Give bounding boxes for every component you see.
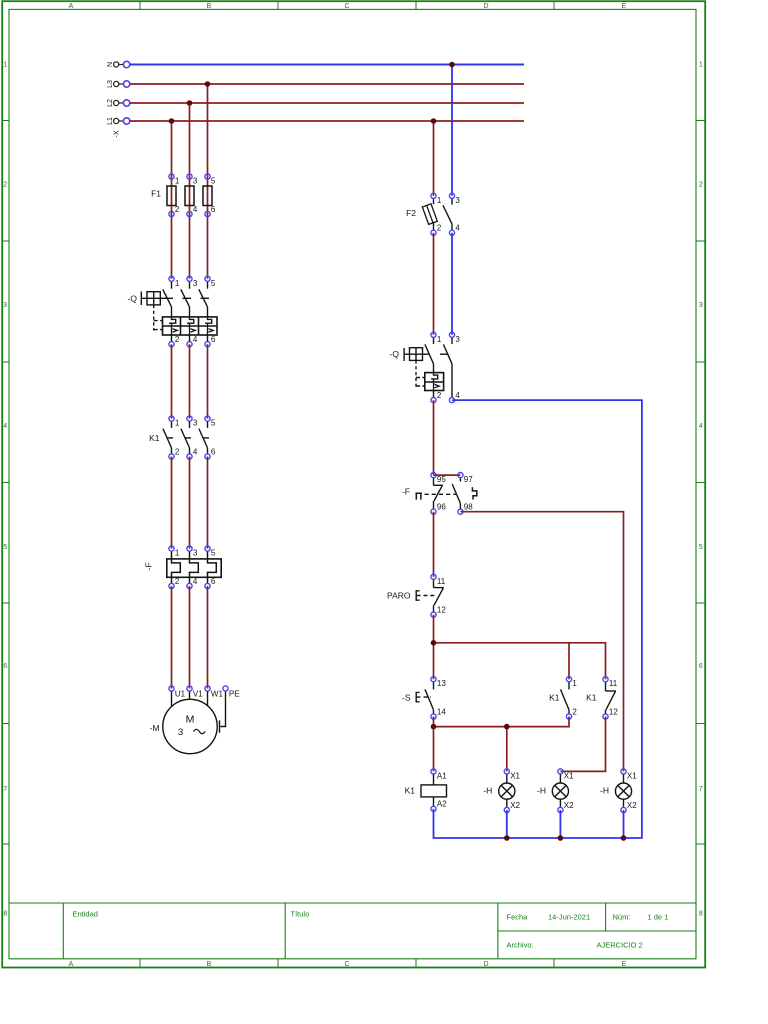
- svg-text:A: A: [69, 961, 74, 968]
- svg-text:4: 4: [3, 423, 7, 430]
- lamp H2 label: [537, 786, 546, 796]
- fuse F1 pole2: [185, 174, 198, 217]
- svg-text:98: 98: [464, 503, 473, 512]
- fuse F1 pole1: [167, 174, 180, 217]
- wire L3 drop to F1 pole3: [207, 84, 209, 279]
- motor PE lead: [220, 691, 226, 733]
- svg-text:X2: X2: [564, 801, 574, 810]
- svg-text:Título: Título: [291, 910, 310, 919]
- lamp H1: [499, 774, 515, 807]
- svg-text:1: 1: [572, 679, 577, 688]
- svg-text:6: 6: [3, 663, 7, 670]
- breaker -Q right trip box: [425, 373, 444, 391]
- wire bus L1: [130, 120, 524, 122]
- svg-text:F1: F1: [151, 189, 161, 199]
- thermal aux -F label: [402, 487, 410, 497]
- svg-text:AJERCICIO 2: AJERCICIO 2: [597, 941, 643, 950]
- svg-text:1: 1: [437, 335, 442, 344]
- wire F2 to Q2 pole2: [451, 233, 453, 335]
- svg-text:3: 3: [455, 335, 460, 344]
- svg-text:1: 1: [437, 196, 442, 205]
- svg-text:8: 8: [699, 911, 703, 918]
- wire K1 to F thermal: [172, 457, 208, 549]
- junction L1: [169, 118, 175, 124]
- svg-text:11: 11: [437, 577, 446, 586]
- svg-text:Fecha: Fecha: [507, 913, 529, 922]
- svg-text:3: 3: [193, 279, 198, 288]
- title block texts: [73, 910, 669, 950]
- breaker -Q right pole2 contact: [443, 337, 452, 397]
- PARO NC contact: [434, 579, 444, 612]
- svg-text:X2: X2: [627, 801, 637, 810]
- thermal overload -F label: [144, 562, 154, 570]
- svg-text:L1: L1: [107, 117, 114, 125]
- svg-text:2: 2: [175, 577, 180, 586]
- lamp H3: [615, 774, 631, 807]
- lamp H1 terminals: [504, 769, 520, 813]
- svg-text:M: M: [186, 714, 195, 726]
- wire N drop to F2 pole2: [451, 65, 453, 196]
- wire Q2 pin2 down to F95: [433, 400, 435, 475]
- junction L3: [205, 81, 211, 87]
- breaker -Q mechanical link dashes: [154, 298, 209, 330]
- junction node below S: [431, 724, 437, 730]
- breaker -Q right terminals: [431, 332, 461, 403]
- wire lamp X2 drops to return bus: [507, 810, 624, 838]
- coil K1: [421, 774, 447, 806]
- svg-text:95: 95: [437, 475, 446, 484]
- fuse switch F2 label: [406, 208, 416, 218]
- breaker -Q pole3 contact: [199, 281, 208, 317]
- wire 95 to 97: [434, 474, 461, 476]
- svg-text:U1: U1: [175, 690, 186, 699]
- K1 aux NC contact: [606, 682, 617, 714]
- wire bus L2: [130, 102, 524, 104]
- svg-text:5: 5: [3, 544, 7, 551]
- node L1 terminal label: [107, 117, 114, 125]
- svg-text:1: 1: [175, 419, 180, 428]
- wire 98 to lamp3: [460, 512, 623, 772]
- fuse switch F2 pole2 blade: [443, 198, 452, 230]
- K1 aux NO contact: [561, 682, 570, 714]
- svg-text:Archivo:: Archivo:: [507, 941, 534, 950]
- wire K1 NC 12 to lamp2: [560, 717, 605, 772]
- breaker -Q pole2 contact: [181, 281, 190, 317]
- lamp H2 terminals: [558, 769, 574, 813]
- svg-text:97: 97: [464, 475, 473, 484]
- svg-text:-H: -H: [483, 786, 492, 796]
- svg-text:3: 3: [193, 419, 198, 428]
- wire PARO to branch node: [433, 615, 435, 680]
- terminal circles black: [114, 62, 119, 124]
- svg-text:6: 6: [211, 447, 216, 456]
- svg-text:2: 2: [699, 182, 703, 189]
- svg-text:6: 6: [211, 205, 216, 214]
- svg-text:Núm:: Núm:: [613, 913, 631, 922]
- start button -S actuator: [416, 692, 431, 701]
- junction L2: [187, 100, 193, 106]
- terminal connector stubs: [119, 65, 124, 122]
- motor -M label: [150, 723, 160, 733]
- junction lamp1 return: [504, 835, 510, 841]
- wire L1 drop to F1 pole1: [171, 121, 173, 279]
- svg-text:1: 1: [175, 279, 180, 288]
- junction N tap: [449, 62, 455, 68]
- coil K1 label: [405, 786, 416, 796]
- svg-text:-H: -H: [537, 786, 546, 796]
- motor terminal leads: [172, 691, 208, 707]
- svg-text:W1: W1: [211, 690, 224, 699]
- svg-text:A: A: [69, 3, 74, 10]
- svg-text:8: 8: [3, 911, 7, 918]
- svg-text:Entidad: Entidad: [73, 910, 98, 919]
- wire F1 to K1 poles: [172, 344, 208, 418]
- wire 96 to PARO: [433, 512, 435, 577]
- svg-text:5: 5: [699, 544, 703, 551]
- thermal aux terminals: [431, 473, 473, 515]
- svg-text:7: 7: [699, 786, 703, 793]
- breaker -Q right link dashes: [416, 354, 448, 388]
- svg-text:1: 1: [3, 62, 7, 69]
- wire bus N: [130, 64, 524, 66]
- node N terminal label: [107, 62, 114, 67]
- svg-text:L3: L3: [107, 80, 114, 88]
- svg-text:6: 6: [211, 335, 216, 344]
- svg-text:K1: K1: [586, 693, 597, 703]
- svg-text:E: E: [622, 961, 627, 968]
- svg-text:C: C: [344, 3, 349, 10]
- svg-text:B: B: [207, 3, 212, 10]
- thermal aux latch symbol: [472, 487, 476, 499]
- wire Q2 pin4 to lamp return (blue L): [434, 400, 642, 838]
- breaker -Q right lead to pin2: [433, 391, 435, 398]
- motor terminals U1 V1 W1 PE: [169, 686, 240, 699]
- svg-text:4: 4: [455, 224, 460, 233]
- lamp H3 label: [600, 786, 609, 796]
- breaker -Q magnetic elements: [172, 326, 214, 335]
- svg-text:4: 4: [193, 447, 198, 456]
- svg-text:-F: -F: [402, 487, 410, 497]
- start button -S NO contact: [425, 682, 434, 714]
- PARO terminals: [431, 574, 446, 617]
- terminal strip -X label: [114, 130, 121, 137]
- svg-text:F2: F2: [406, 208, 416, 218]
- svg-text:PARO: PARO: [387, 591, 411, 601]
- svg-text:1 de 1: 1 de 1: [648, 913, 669, 922]
- svg-text:14: 14: [437, 707, 446, 716]
- svg-text:1: 1: [175, 549, 180, 558]
- breaker -Q handle: [141, 292, 167, 306]
- wire branch to K1 aux contacts: [434, 643, 606, 679]
- svg-text:2: 2: [175, 447, 180, 456]
- svg-text:X2: X2: [510, 801, 520, 810]
- motor inner text M 3 ~: [178, 714, 205, 739]
- start button -S label: [402, 693, 411, 703]
- junction lamp3 return: [621, 835, 627, 841]
- wire L1 drop to F2 pole1: [433, 121, 435, 196]
- contactor K1 pole2: [181, 421, 191, 454]
- thermal aux trip symbol: [415, 493, 456, 499]
- svg-text:4: 4: [699, 423, 703, 430]
- svg-text:A2: A2: [437, 800, 447, 809]
- svg-text:-M: -M: [150, 723, 160, 733]
- thermal aux NO contact 97-98: [452, 478, 460, 509]
- svg-text:6: 6: [211, 577, 216, 586]
- contactor K1 pole1: [163, 421, 173, 454]
- svg-text:14-Jun-2021: 14-Jun-2021: [548, 913, 590, 922]
- svg-text:N: N: [107, 62, 114, 67]
- wire bus L3: [130, 83, 524, 85]
- PARO label: [387, 591, 411, 601]
- svg-text:3: 3: [193, 177, 198, 186]
- svg-text:K1: K1: [405, 786, 416, 796]
- svg-text:4: 4: [455, 391, 460, 400]
- start button -S terminals: [431, 677, 446, 720]
- thermal overload -F heater pole3: [208, 551, 217, 583]
- breaker -Q right handle: [404, 348, 429, 361]
- svg-text:-S: -S: [402, 693, 411, 703]
- svg-text:-X: -X: [114, 130, 121, 137]
- svg-text:V1: V1: [193, 690, 203, 699]
- lamp H1 label: [483, 786, 492, 796]
- svg-text:96: 96: [437, 503, 446, 512]
- svg-text:12: 12: [437, 605, 446, 614]
- svg-text:3: 3: [178, 727, 183, 738]
- junction lamp2 return: [558, 835, 564, 841]
- title block: [9, 903, 696, 959]
- breaker -Q right pole1 contact: [425, 337, 434, 372]
- fuse F1 label: [151, 189, 161, 199]
- svg-text:7: 7: [3, 786, 7, 793]
- svg-text:X1: X1: [564, 771, 574, 780]
- PARO pushbutton actuator: [416, 591, 437, 600]
- svg-text:B: B: [207, 961, 212, 968]
- svg-text:1: 1: [699, 62, 703, 69]
- svg-text:13: 13: [437, 679, 446, 688]
- svg-text:D: D: [483, 3, 488, 10]
- node L3 terminal label: [107, 80, 114, 88]
- svg-text:K1: K1: [149, 433, 160, 443]
- wire F2 to Q2 pole1: [433, 233, 435, 335]
- breaker -Q thermal elements: [169, 317, 212, 326]
- svg-text:PE: PE: [229, 690, 240, 699]
- thermal overload -F heater pole1: [172, 551, 181, 583]
- breaker -Q right thermal element: [431, 373, 438, 382]
- svg-text:5: 5: [211, 549, 216, 558]
- svg-text:6: 6: [699, 663, 703, 670]
- contactor K1 label: [149, 433, 160, 443]
- svg-text:3: 3: [193, 549, 198, 558]
- junction node lamp1 feed: [504, 724, 510, 730]
- wire F thermal to motor: [172, 586, 208, 689]
- node L2 terminal label: [107, 99, 114, 107]
- svg-text:5: 5: [211, 177, 216, 186]
- svg-text:1: 1: [175, 177, 180, 186]
- lamp H2: [552, 774, 568, 807]
- svg-text:K1: K1: [549, 693, 560, 703]
- K1 aux NO label: [549, 693, 560, 703]
- junction L1 tap: [431, 118, 437, 124]
- lamp H3 terminals: [621, 769, 637, 813]
- svg-text:4: 4: [193, 335, 198, 344]
- breaker -Q terminals: [169, 276, 216, 347]
- svg-text:X1: X1: [510, 771, 520, 780]
- svg-text:2: 2: [175, 205, 180, 214]
- svg-text:5: 5: [211, 279, 216, 288]
- svg-text:4: 4: [193, 577, 198, 586]
- svg-text:2: 2: [572, 707, 577, 716]
- svg-text:D: D: [483, 961, 488, 968]
- svg-text:3: 3: [455, 196, 460, 205]
- svg-text:X1: X1: [627, 771, 637, 780]
- svg-text:E: E: [622, 3, 627, 10]
- coil K1 terminals A1 A2: [431, 769, 447, 812]
- breaker -Q right magnetic element: [434, 382, 440, 391]
- svg-text:-Q: -Q: [390, 349, 400, 359]
- thermal overload -F heater pole2: [190, 551, 199, 583]
- thermal overload -F box: [167, 559, 221, 577]
- fuse switch F2 terminals: [431, 193, 461, 235]
- breaker -Q trip unit box: [163, 317, 218, 335]
- svg-text:3: 3: [699, 302, 703, 309]
- svg-text:L2: L2: [107, 99, 114, 107]
- svg-text:2: 2: [175, 335, 180, 344]
- terminal circles blue: [123, 61, 129, 124]
- wire S14 junction to coil and lamp1: [434, 717, 570, 772]
- breaker -Q label: [128, 294, 138, 304]
- breaker -Q pole1 contact: [163, 281, 172, 317]
- svg-text:2: 2: [3, 182, 7, 189]
- fuse F1 pole3: [203, 174, 216, 217]
- K1 aux NO terminals: [566, 677, 577, 720]
- svg-text:-H: -H: [600, 786, 609, 796]
- K1 aux NC terminals: [603, 677, 618, 720]
- contactor K1 pole3: [199, 421, 209, 454]
- svg-text:2: 2: [437, 224, 442, 233]
- thermal overload -F terminals: [169, 546, 216, 589]
- svg-text:2: 2: [437, 391, 442, 400]
- junction branch node: [431, 640, 437, 646]
- K1 aux NC label: [586, 693, 597, 703]
- svg-text:5: 5: [211, 419, 216, 428]
- svg-text:C: C: [344, 961, 349, 968]
- contactor K1 terminals: [169, 416, 216, 459]
- svg-text:-F: -F: [144, 562, 154, 570]
- motor body circle: [163, 699, 217, 753]
- wire L2 drop to F1 pole2: [189, 103, 191, 279]
- svg-text:-Q: -Q: [128, 294, 138, 304]
- svg-text:3: 3: [3, 302, 7, 309]
- breaker -Q right label: [390, 349, 400, 359]
- svg-text:11: 11: [609, 679, 618, 688]
- fuse switch F2 pole1: [422, 198, 437, 230]
- svg-text:12: 12: [609, 707, 618, 716]
- svg-text:A1: A1: [437, 771, 447, 780]
- svg-text:4: 4: [193, 205, 198, 214]
- thermal aux NC contact 95-96: [434, 478, 443, 509]
